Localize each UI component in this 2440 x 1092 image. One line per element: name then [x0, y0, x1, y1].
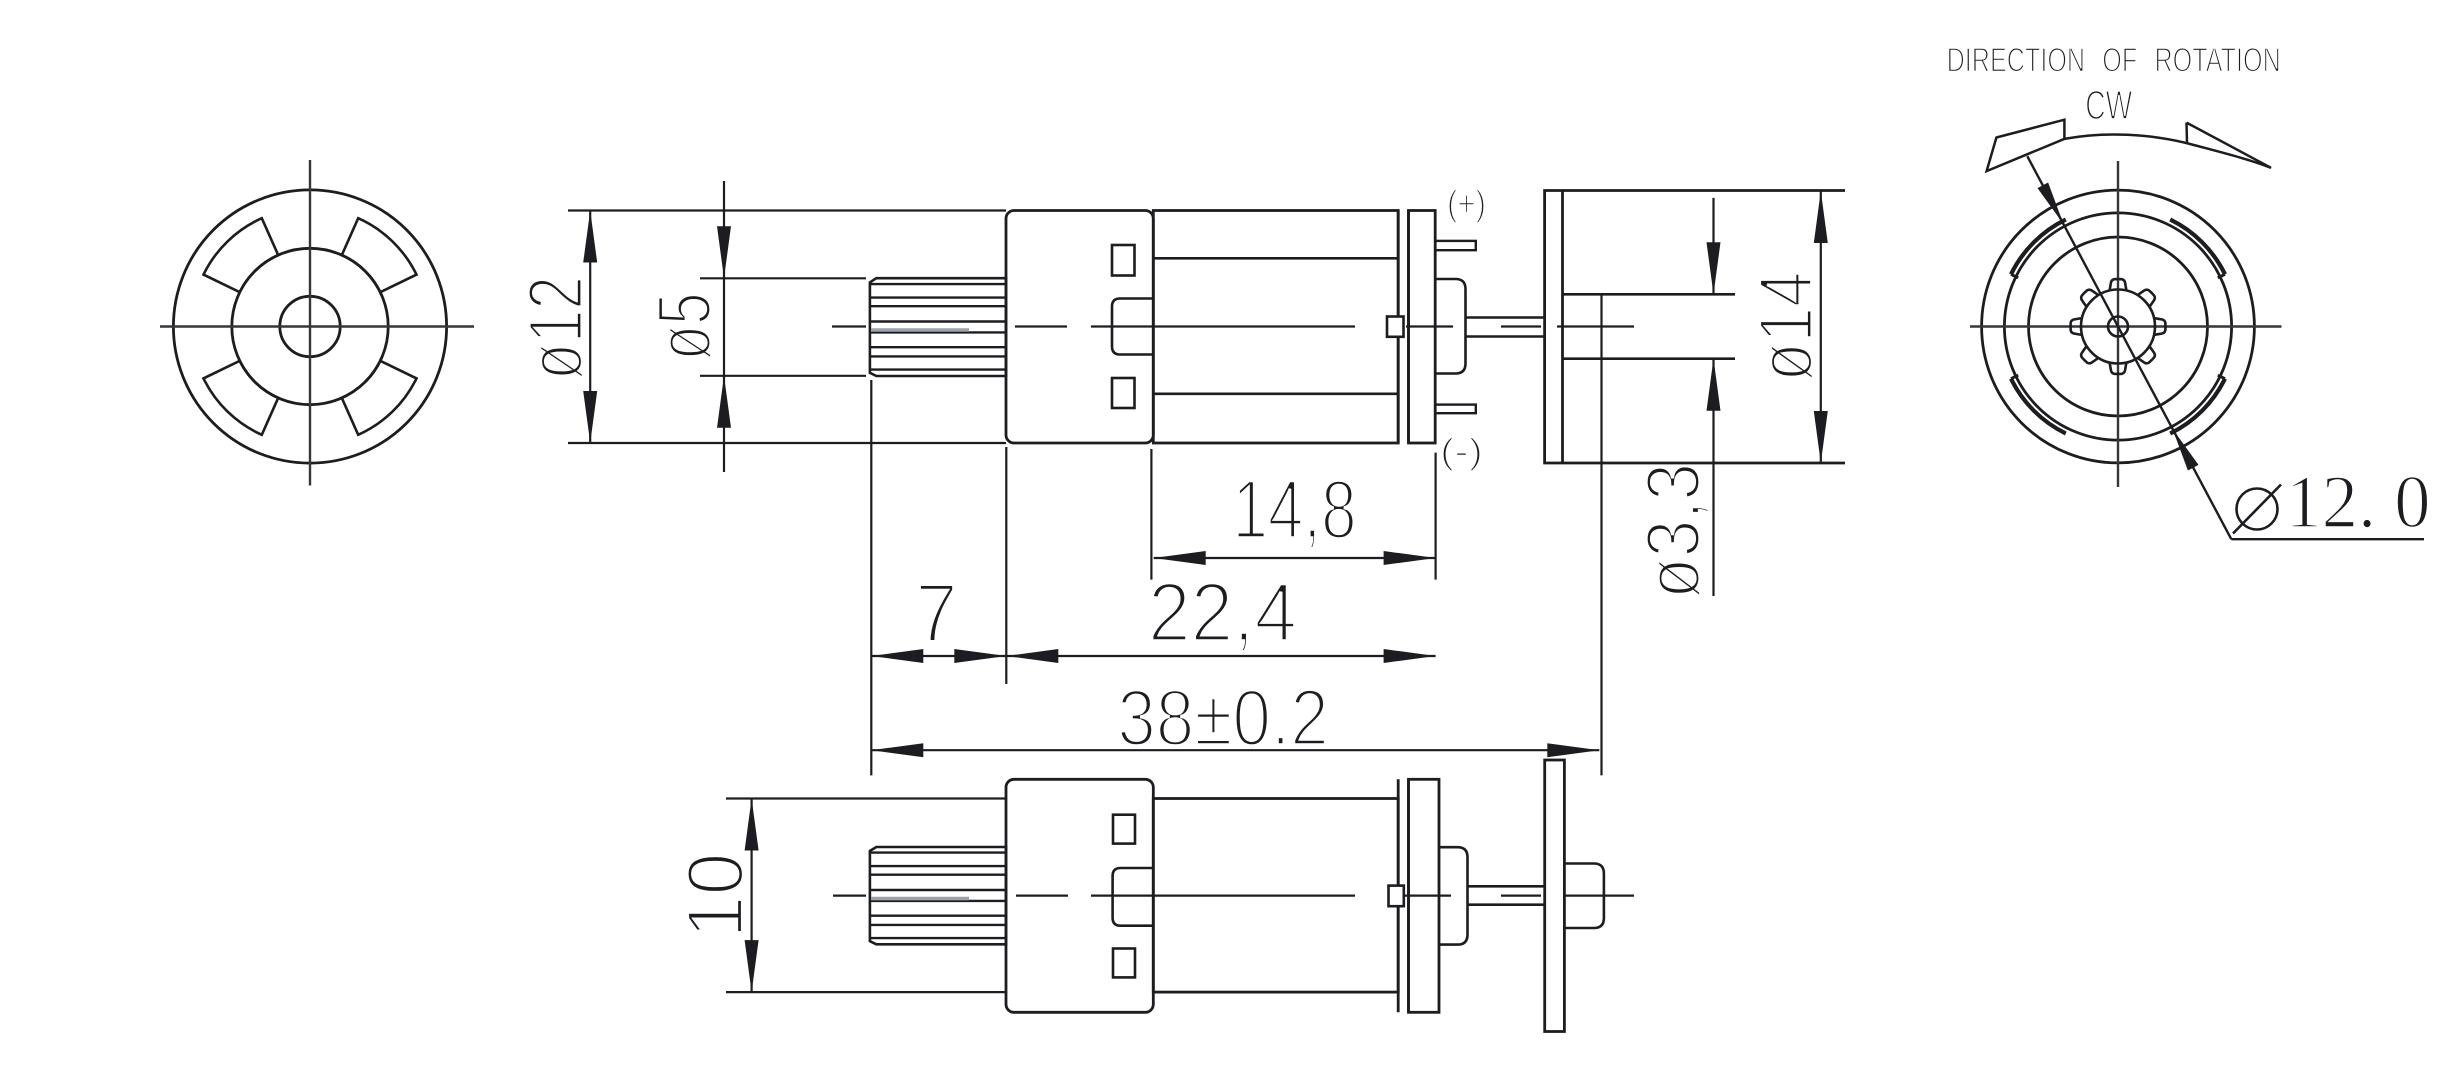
svg-text:ø3,3: ø3,3: [1632, 463, 1716, 599]
svg-text:7: 7: [915, 566, 957, 659]
svg-text:(-): (-): [1440, 432, 1483, 472]
svg-text:12. 0: 12. 0: [2286, 461, 2431, 545]
svg-text:CW: CW: [2085, 83, 2132, 128]
svg-text:22,4: 22,4: [1148, 566, 1297, 660]
svg-text:ø5: ø5: [643, 293, 727, 361]
svg-text:(+): (+): [1447, 183, 1486, 224]
svg-text:DIRECTION OF ROTATION: DIRECTION OF ROTATION: [1947, 42, 2281, 80]
svg-text:38±0.2: 38±0.2: [1117, 672, 1329, 762]
svg-text:10: 10: [670, 852, 759, 938]
svg-text:ø12: ø12: [512, 276, 599, 380]
svg-text:14,8: 14,8: [1232, 463, 1356, 556]
svg-text:ø14: ø14: [1743, 272, 1829, 382]
